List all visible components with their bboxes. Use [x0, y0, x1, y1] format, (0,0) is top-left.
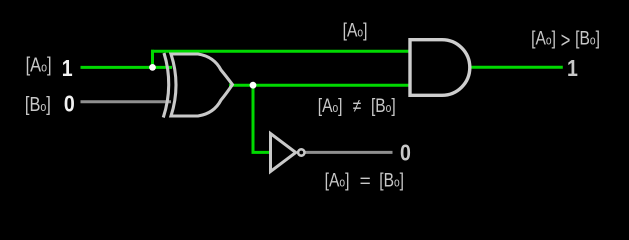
- label [B0] input B: [25, 93, 51, 116]
- svg-text:0: 0: [64, 91, 75, 117]
- svg-text:>: >: [561, 28, 571, 53]
- label [A0] != [B0] on XOR output wire: [318, 94, 396, 116]
- svg-text:0: 0: [400, 140, 411, 166]
- label [A0] input A: [26, 53, 52, 76]
- svg-text:1: 1: [62, 56, 73, 82]
- wire A input (green): [81, 66, 173, 69]
- svg-text:[Bo]: [Bo]: [379, 169, 404, 191]
- svg-text:≠: ≠: [353, 94, 362, 116]
- value 1 on AND output: [567, 55, 578, 81]
- label [A0] > [B0] on AND output wire: [531, 27, 600, 53]
- svg-text:[Ao]: [Ao]: [26, 53, 52, 76]
- svg-text:1: 1: [567, 55, 578, 81]
- svg-text:[Bo]: [Bo]: [25, 93, 51, 116]
- wire horizontal into NOT gate input: [252, 151, 270, 154]
- wire XOR output to AND bottom input, net [A0] != [B0]: [229, 84, 410, 87]
- value 1 on input A: [62, 56, 73, 82]
- junction dot on XOR output branch: [250, 82, 257, 89]
- and gate: [410, 40, 470, 96]
- svg-text:[Ao]: [Ao]: [325, 169, 350, 191]
- svg-text:[Ao]: [Ao]: [318, 94, 343, 116]
- wire top horizontal [A0] to AND top input: [151, 50, 410, 53]
- wire NOT output (gray): [305, 151, 393, 154]
- value 0 on NOT output: [400, 140, 411, 166]
- svg-text:=: =: [360, 172, 371, 193]
- junction dot on A input branch: [149, 64, 156, 71]
- not gate (inverter): [271, 134, 305, 172]
- svg-text:[Bo]: [Bo]: [371, 94, 396, 116]
- wire A branch vertical up: [151, 50, 154, 68]
- wire B input (gray): [81, 100, 172, 103]
- svg-text:[Ao]: [Ao]: [531, 27, 556, 49]
- svg-text:[Ao]: [Ao]: [343, 19, 368, 41]
- xor gate: [163, 53, 232, 118]
- wire AND output (green): [469, 66, 563, 69]
- wire vertical from XOR-output junction down to NOT gate: [252, 85, 255, 152]
- label [A0] on top wire: [343, 19, 368, 41]
- value 0 on input B: [64, 91, 75, 117]
- svg-text:[Bo]: [Bo]: [575, 27, 600, 49]
- label [A0] = [B0] on NOT output wire: [325, 169, 404, 192]
